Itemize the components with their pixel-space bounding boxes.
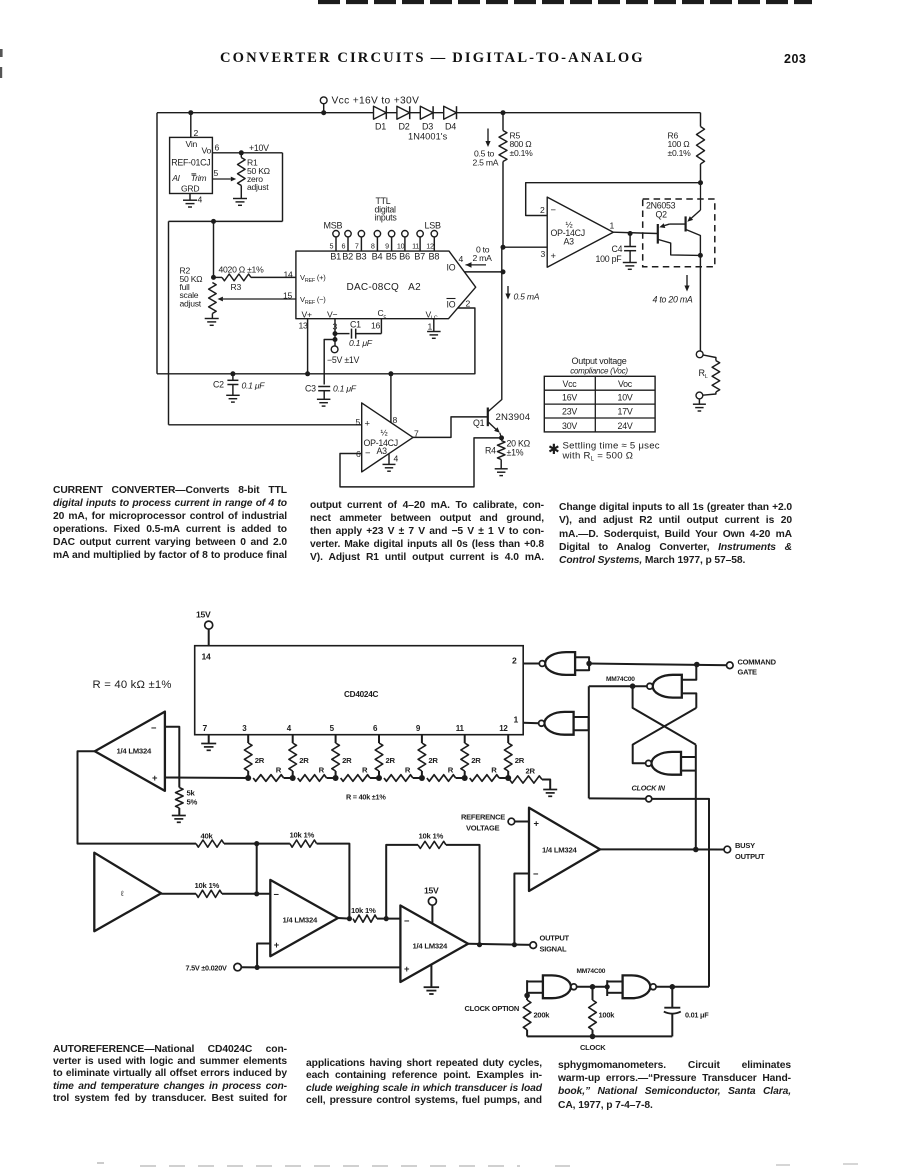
transistor Q1 collector [488, 247, 502, 411]
svg-text:0.1 μF: 0.1 μF [333, 384, 357, 394]
svg-text:5: 5 [330, 241, 334, 250]
svg-text:adjust: adjust [180, 298, 202, 308]
wire supply bus horizontal [157, 373, 475, 375]
wire output tap up to U7 minus [514, 874, 529, 945]
transistor Q2b collector [686, 230, 701, 256]
svg-text:12: 12 [426, 241, 434, 250]
svg-text:+: + [551, 250, 557, 261]
svg-text:R: R [319, 766, 325, 775]
svg-text:4020 Ω ±1%: 4020 Ω ±1% [219, 265, 265, 275]
ground C2 [226, 394, 240, 396]
svg-text:10k 1%: 10k 1% [419, 832, 444, 841]
svg-text:7: 7 [355, 241, 359, 250]
svg-text:12: 12 [499, 724, 508, 733]
svg-text:6: 6 [342, 241, 346, 250]
terminal input bit B4 pin 8 [374, 231, 380, 237]
svg-text:Vo: Vo [202, 146, 212, 156]
wire CD4024C pin1 to gate D [523, 722, 538, 725]
ground R4 [495, 468, 508, 470]
wire pin5 from +10V leg [169, 424, 362, 426]
gate C latch lower (mirrored) [651, 752, 681, 775]
svg-text:Vcc +16V to +30V: Vcc +16V to +30V [332, 96, 420, 107]
svg-text:2R: 2R [255, 756, 265, 765]
resistor R ladder #5 [427, 775, 456, 782]
terminal Vcc [323, 104, 325, 113]
svg-text:100k: 100k [599, 1011, 616, 1020]
svg-text:CLOCK IN: CLOCK IN [632, 784, 666, 793]
svg-text:2 mA: 2 mA [473, 253, 493, 263]
capacitor C4 100pF [629, 234, 631, 247]
wire IO pin4 out [464, 271, 503, 273]
resistor R ladder #2 [298, 775, 327, 782]
node junction C1 tap [333, 331, 338, 336]
terminal RL top [696, 351, 703, 358]
resistor 2R on pin 3 [247, 735, 249, 743]
svg-text:−: − [551, 204, 557, 215]
svg-text:±0.1%: ±0.1% [668, 148, 692, 158]
wire left rail vertical [156, 113, 158, 374]
wire U6 output signal [468, 944, 533, 945]
wire U5 output [338, 917, 349, 920]
terminal input bit B5 pin 9 [388, 231, 394, 237]
wire U7 output busy [600, 848, 727, 850]
svg-text:Output voltage: Output voltage [571, 356, 626, 366]
svg-text:CLOCK OPTION: CLOCK OPTION [465, 1004, 520, 1013]
svg-text:+: + [365, 418, 371, 429]
svg-text:LSB: LSB [425, 221, 442, 231]
IC A2 DAC-08CQ body [296, 251, 476, 319]
terminal input bit B6 pin 10 [402, 231, 408, 237]
wire 7.5V rail to U6 plus [257, 966, 400, 968]
terminal -5V [331, 346, 338, 353]
node junction REF pin2 [188, 110, 193, 115]
svg-text:IO: IO [447, 300, 456, 310]
svg-text:Trim: Trim [191, 173, 207, 183]
svg-text:15: 15 [283, 291, 293, 301]
wire U5 plus to 7.5V ref [257, 944, 270, 968]
svg-text:D4: D4 [445, 122, 456, 132]
svg-text:+: + [274, 939, 280, 950]
svg-text:−: − [274, 889, 280, 900]
svg-text:±0.1%: ±0.1% [510, 148, 534, 158]
transistor Q1 emitter with arrow [488, 422, 496, 429]
svg-text:✱: ✱ [548, 441, 559, 457]
ground A3 bottom pin4 [388, 454, 390, 465]
wire Vo pin6 to +10V net [212, 152, 282, 154]
wire clock-in vertical [588, 686, 590, 798]
svg-text:BUSY: BUSY [735, 841, 755, 850]
svg-text:2R: 2R [526, 767, 536, 776]
svg-text:1/4 LM324: 1/4 LM324 [283, 916, 318, 925]
terminal input bit B7 pin 11 [417, 231, 423, 237]
svg-text:2N3904: 2N3904 [496, 412, 531, 423]
node junction IO rail [501, 269, 506, 274]
svg-text:40k: 40k [201, 832, 214, 841]
svg-text:5%: 5% [187, 798, 198, 807]
svg-text:A3: A3 [564, 237, 575, 247]
svg-text:16V: 16V [562, 393, 577, 403]
svg-text:2R: 2R [342, 756, 352, 765]
svg-text:200k: 200k [534, 1011, 551, 1020]
terminal input bit B8 pin 12 [431, 231, 437, 237]
wire REF pin2 stem [190, 113, 192, 138]
page top broken rule (scan artifact) [318, 0, 812, 4]
svg-text:11: 11 [456, 724, 465, 733]
svg-text:OUTPUT: OUTPUT [735, 852, 765, 861]
svg-text:adjust: adjust [247, 182, 269, 192]
wire IObar pin2 out and down [458, 308, 475, 374]
svg-text:1/4 LM324: 1/4 LM324 [117, 747, 152, 756]
annotation 4 to 20 mA with arrow [686, 275, 688, 286]
svg-text:+: + [152, 772, 158, 783]
transistor Q2a collector [658, 240, 700, 256]
svg-text:B7: B7 [414, 252, 425, 262]
svg-text:2: 2 [466, 299, 471, 309]
svg-text:MM74C00: MM74C00 [606, 676, 635, 683]
op-amp U6 1/4 LM324 output [400, 906, 468, 983]
svg-text:0.01 μF: 0.01 μF [685, 1011, 709, 1020]
resistor R ladder #6 [470, 775, 500, 782]
gate D clock inverter (mirrored) [544, 712, 573, 735]
svg-text:B6: B6 [399, 252, 410, 262]
wire DAC pin15 to R2 wiper [223, 298, 296, 300]
svg-text:24V: 24V [618, 421, 633, 431]
svg-text:D2: D2 [399, 122, 410, 132]
svg-text:B5: B5 [386, 252, 397, 262]
resistor 10k 1% feedback B [386, 845, 418, 919]
terminal input bit B2 pin 6 [345, 231, 351, 237]
resistor 200k [526, 996, 528, 1000]
resistor 2R on pin 12 [507, 735, 509, 743]
svg-text:1/4 LM324: 1/4 LM324 [542, 846, 577, 855]
wire DAC pin3 V- leg [334, 319, 336, 350]
resistor 2R on pin 4 [292, 735, 294, 743]
svg-text:R: R [405, 766, 411, 775]
svg-text:15V: 15V [196, 610, 211, 620]
svg-text:R4: R4 [485, 446, 496, 456]
node junction -5V tap [333, 337, 338, 342]
terminal COMMAND GATE [727, 662, 734, 669]
transistor Q1 2N3904 base bar [487, 408, 489, 427]
svg-text:23V: 23V [562, 407, 577, 417]
node ladder junction 7 [505, 775, 511, 781]
wire oscillator bottom rail [527, 1035, 672, 1037]
wire latch set line [589, 685, 647, 687]
svg-text:9: 9 [385, 241, 389, 250]
ground pin7 [208, 735, 210, 744]
svg-text:Q1: Q1 [473, 418, 485, 428]
svg-text:−: − [365, 447, 371, 458]
svg-text:3: 3 [541, 249, 546, 259]
svg-text:−: − [151, 722, 157, 733]
svg-text:Vin: Vin [186, 139, 198, 149]
svg-text:1N4001's: 1N4001's [408, 132, 448, 142]
svg-text:MM74C00: MM74C00 [577, 968, 606, 975]
node junction feedback B out [477, 942, 482, 947]
svg-text:with RL = 500 Ω: with RL = 500 Ω [562, 451, 634, 463]
transistor Q2b base bar [684, 216, 686, 231]
resistor 2R on pin 5 [335, 735, 337, 743]
wire +10V net right leg down [282, 153, 284, 222]
node junction gate A out [586, 661, 592, 667]
svg-text:R3: R3 [231, 282, 242, 292]
svg-text:10k 1%: 10k 1% [195, 881, 220, 890]
resistor 10k 1% input [196, 890, 222, 897]
table grid [544, 376, 655, 432]
node junction 40k summing [254, 841, 259, 846]
op-amp U5 1/4 LM324 summing [270, 880, 338, 956]
gate B input stubs [682, 665, 697, 680]
terminal CLOCK IN [646, 796, 652, 802]
node junction pin13 [305, 371, 310, 376]
svg-text:0.1 μF: 0.1 μF [242, 381, 266, 391]
ground R2 [205, 318, 219, 320]
resistor R ladder #3 [341, 775, 370, 782]
ground C3 [317, 398, 331, 400]
node junction R2 R3 [211, 275, 216, 280]
gate E oscillator (input tab left) [527, 981, 543, 983]
svg-text:16: 16 [371, 321, 381, 331]
svg-text:GATE: GATE [738, 668, 758, 677]
svg-text:6: 6 [215, 143, 220, 153]
svg-text:Al: Al [171, 173, 180, 183]
resistor R6 [700, 113, 702, 127]
node junction latch set [630, 683, 636, 689]
potentiometer R1 50K zero adjust [240, 153, 242, 158]
node junction R6 bottom [698, 180, 703, 185]
IC CD4024C box [195, 646, 524, 735]
gate B latch upper (mirrored) [653, 675, 682, 698]
ground DAC VLC pin1 [433, 319, 435, 332]
wire CD4024C pin2 to gate A [523, 663, 539, 665]
resistor RL [703, 355, 716, 361]
svg-text:DAC-08CQ A2: DAC-08CQ A2 [347, 282, 422, 293]
svg-text:17V: 17V [618, 407, 633, 417]
svg-text:C2: C2 [213, 380, 224, 390]
svg-text:14: 14 [202, 652, 212, 662]
ground 5k [172, 815, 186, 817]
svg-text:compliance (Voc): compliance (Voc) [570, 366, 628, 375]
node junction Vcc stem [321, 110, 326, 115]
svg-text:C1: C1 [350, 320, 361, 330]
gate C input stubs [681, 756, 696, 758]
wire gate F out [656, 986, 709, 988]
op-amp U3 1/4 LM324 buffer (faces left) [95, 712, 165, 791]
gate D input tab [574, 717, 589, 730]
svg-text:7: 7 [203, 723, 208, 733]
terminal input bit B3 pin 7 [358, 231, 364, 237]
op-amp U7 1/4 LM324 comparator [529, 808, 600, 891]
node ladder junction 4 [376, 775, 382, 781]
svg-text:10V: 10V [618, 393, 633, 403]
wire Trim pin5 to R1 wiper [212, 178, 230, 180]
op-amp U4 transducer buffer [94, 853, 161, 932]
svg-text:4: 4 [394, 454, 399, 464]
ground C4 [623, 262, 637, 264]
capacitor 0.01uF [671, 987, 673, 1008]
op-amp U2 half OP-14CJ A3 bottom [362, 403, 413, 472]
svg-text:R: R [491, 766, 497, 775]
resistor 10k 1% interstage [353, 915, 377, 922]
svg-text:R = 40k ±1%: R = 40k ±1% [346, 793, 386, 802]
IC U1 REF-01CJ box [170, 137, 213, 193]
svg-text:0.1 μF: 0.1 μF [349, 338, 373, 348]
node ladder junction 6 [462, 775, 468, 781]
svg-text:5: 5 [214, 168, 219, 178]
resistor 2R on pin 6 [378, 735, 380, 743]
svg-text:1: 1 [514, 715, 519, 725]
gate A input tab [575, 657, 589, 670]
resistor R ladder #1 [253, 775, 284, 782]
svg-text:B1: B1 [330, 252, 341, 262]
wire latch cross diagonal 2 [633, 708, 697, 763]
svg-text:8: 8 [393, 415, 398, 425]
svg-text:R = 40 kΩ ±1%: R = 40 kΩ ±1% [93, 679, 172, 691]
wire R2 top leg [213, 221, 215, 277]
capacitor C1 0.1uF [335, 333, 350, 335]
node junction U5 out [347, 916, 352, 921]
node junction Q2 collectors [698, 253, 703, 258]
transistor Q2a base bar [657, 224, 659, 244]
node junction cap top [670, 984, 676, 990]
svg-text:14: 14 [284, 270, 294, 280]
wire buffer output loop to 40k [78, 751, 197, 843]
node junction clock rail [590, 1034, 596, 1040]
svg-text:2R: 2R [515, 756, 525, 765]
dashed box around Q2 [643, 199, 715, 267]
wire U4 out to 10k [161, 893, 196, 895]
terminal 15V counter supply [205, 621, 213, 629]
resistor 10k 1% feedback A [257, 843, 290, 845]
svg-text:8: 8 [371, 241, 375, 250]
node junction opamp pin8 [388, 371, 393, 376]
op-amp U2 half OP-14CJ A3 top [547, 197, 613, 267]
svg-text:D1: D1 [375, 122, 386, 132]
transistor Q2b emitter from rail with arrow [700, 183, 702, 210]
node junction interstage [384, 916, 389, 921]
resistor 100k [592, 987, 594, 1000]
svg-text:10k 1%: 10k 1% [290, 831, 315, 840]
svg-text:C4: C4 [612, 244, 623, 254]
svg-text:Voc: Voc [618, 379, 633, 389]
svg-text:2R: 2R [471, 756, 481, 765]
svg-text:B4: B4 [372, 252, 383, 262]
wire clock line to oscillator [652, 799, 709, 987]
wire A3 output pin1 [613, 232, 657, 233]
node ladder junction 2 [290, 775, 296, 781]
svg-text:2: 2 [512, 656, 517, 666]
wire DAC pin13 leg [307, 319, 309, 374]
resistor R4 20K [497, 441, 505, 460]
svg-text:0.5 mA: 0.5 mA [514, 292, 540, 302]
svg-text:REFERENCE: REFERENCE [461, 813, 505, 822]
svg-text:OUTPUT: OUTPUT [540, 934, 570, 943]
wire latch cross diagonal 1 [633, 686, 696, 744]
terminal BUSY OUTPUT [724, 846, 731, 853]
transistor Q2a emitter with arrow [669, 223, 685, 225]
capacitor C3 0.1uF [318, 386, 330, 388]
resistor 40k [196, 840, 224, 847]
svg-text:13: 13 [299, 321, 309, 331]
wire latch output down to busy [695, 745, 697, 850]
svg-text:4: 4 [198, 195, 203, 205]
svg-text:1/4 LM324: 1/4 LM324 [413, 942, 448, 951]
svg-text:11: 11 [412, 241, 419, 250]
svg-text:½: ½ [381, 428, 388, 438]
resistor 2R terminator [510, 776, 543, 783]
terminal OUTPUT SIGNAL [530, 942, 537, 949]
svg-text:15V: 15V [424, 886, 439, 896]
wire summing vertical [256, 844, 258, 894]
svg-text:10k 1%: 10k 1% [351, 906, 376, 915]
svg-text:2: 2 [194, 128, 199, 138]
node ladder junction 5 [419, 775, 425, 781]
wire -5V branch to C3 [324, 340, 335, 385]
svg-text:V−: V− [327, 310, 337, 320]
ground ladder terminator [543, 789, 557, 791]
wire clock in horizontal [589, 797, 646, 799]
gate F oscillator (input tab left) [607, 981, 622, 983]
svg-text:+10V: +10V [249, 143, 269, 153]
svg-text:Vcc: Vcc [563, 379, 578, 389]
terminal input bit B1 pin 5 [333, 231, 339, 237]
resistor 2R on pin 11 [464, 735, 466, 743]
svg-text:R: R [362, 766, 368, 775]
svg-text:IO: IO [447, 263, 456, 273]
svg-text:C3: C3 [305, 384, 316, 394]
svg-text:−: − [404, 915, 410, 926]
svg-text:2: 2 [540, 205, 545, 215]
resistor 5k [176, 788, 184, 809]
svg-text:2R: 2R [386, 756, 396, 765]
svg-text:4: 4 [459, 254, 464, 264]
svg-text:D3: D3 [422, 122, 433, 132]
svg-text:inputs: inputs [375, 213, 398, 223]
node junction C4 tap [628, 231, 633, 236]
svg-text:VOLTAGE: VOLTAGE [466, 824, 500, 833]
resistor R3 4020 ohm [214, 276, 223, 278]
node junction gate E input [524, 993, 530, 999]
svg-text:Q2: Q2 [656, 210, 668, 220]
svg-text:MSB: MSB [324, 221, 343, 231]
ground U6 [430, 964, 432, 987]
svg-text:GRD: GRD [181, 183, 199, 193]
wire buffer plus to ladder [165, 777, 179, 779]
wire pin3 feed from rail [503, 246, 547, 248]
diode D2 1N4001 [397, 106, 410, 119]
ground RL [698, 399, 700, 404]
svg-text:±1%: ±1% [507, 448, 524, 458]
svg-text:100 pF: 100 pF [596, 254, 623, 264]
svg-text:30V: 30V [562, 421, 577, 431]
node ladder junction 1 [245, 775, 251, 781]
node junction 7.5V [255, 965, 260, 970]
wire left +10V leg down to pin5 wire [168, 221, 170, 424]
wire pin6 feedback in [340, 438, 502, 487]
resistor R5 [502, 113, 504, 131]
terminal RL bottom [696, 392, 703, 399]
svg-text:CLOCK: CLOCK [580, 1043, 606, 1052]
node junction pin3 rail [501, 245, 506, 250]
node junction R2 feed [211, 219, 216, 224]
bottom ghost showthrough line [140, 1165, 520, 1167]
node junction busy latch [693, 847, 699, 853]
wire command gate line [589, 664, 729, 666]
svg-text:−5V ±1V: −5V ±1V [327, 355, 360, 365]
wire opamp pin8 from bus [390, 374, 392, 423]
svg-text:R: R [276, 766, 282, 775]
svg-text:5k: 5k [187, 789, 196, 798]
